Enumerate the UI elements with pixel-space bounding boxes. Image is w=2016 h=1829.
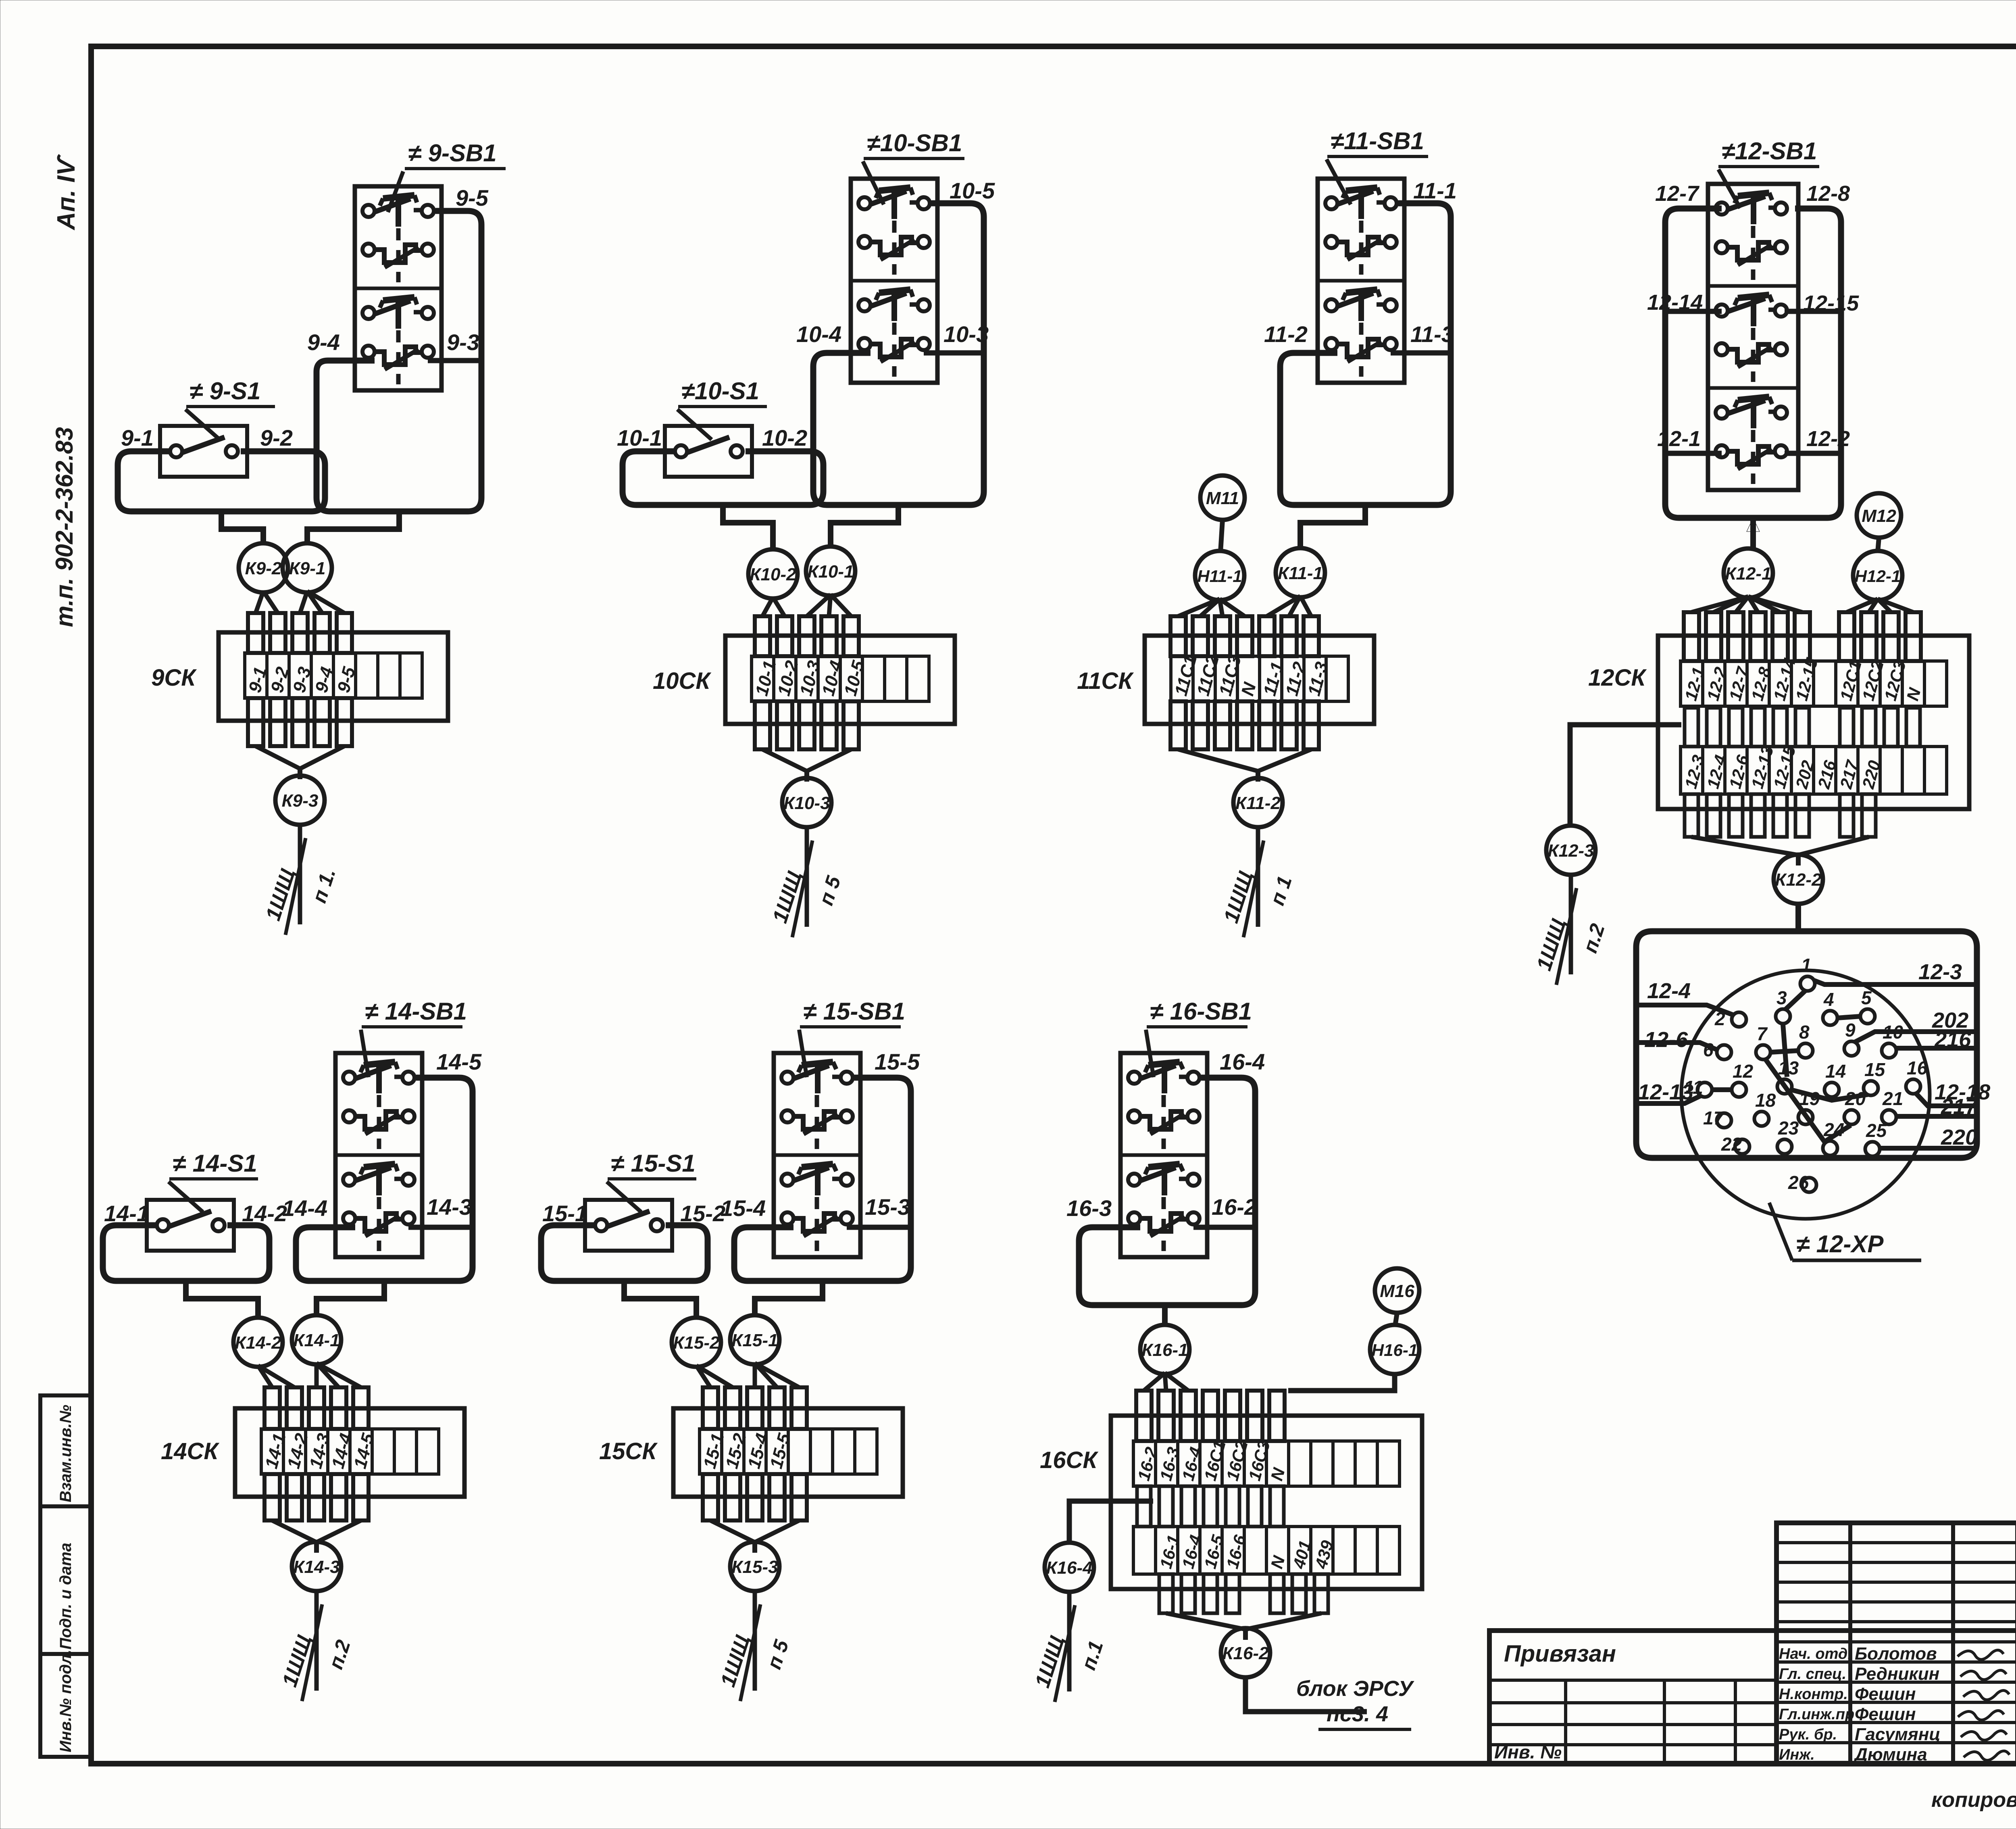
terminal label 14-2 <box>242 1201 287 1226</box>
svg-text:11-3: 11-3 <box>1410 321 1454 347</box>
svg-text:К11-1: К11-1 <box>1278 563 1323 583</box>
terminal label 15-2 <box>680 1201 725 1226</box>
connector 12-ХР right net labels <box>1918 960 1990 1149</box>
switch assembly ≠16-SB1 label <box>1146 998 1252 1077</box>
switch assembly ≠11-SB1 <box>1318 179 1404 383</box>
switch assembly ≠9-SB1 label <box>388 140 506 212</box>
svg-text:≠ 9-S1: ≠ 9-S1 <box>190 377 260 405</box>
relay coil K11-1 <box>1276 548 1325 597</box>
wire exit left from 12СК to K12-3 <box>1570 725 1681 825</box>
connector 12-ХР designator <box>1769 1203 1921 1260</box>
relay coil K14-1 <box>292 1315 341 1364</box>
terminal block 14СК label <box>161 1438 219 1464</box>
switch assembly ≠12-SB1 label <box>1718 138 1819 208</box>
svg-text:14СК: 14СК <box>161 1438 219 1464</box>
wire merge under 10СК <box>762 749 851 782</box>
terminal label 12-8 <box>1806 181 1850 206</box>
svg-text:≠ 9-SB1: ≠ 9-SB1 <box>408 140 497 167</box>
svg-text:10СК: 10СК <box>653 668 711 694</box>
svg-text:т.п. 902-2-362.83: т.п. 902-2-362.83 <box>51 427 78 627</box>
svg-text:15: 15 <box>1864 1059 1886 1080</box>
svg-text:п 5: п 5 <box>814 873 845 908</box>
svg-text:≠10-SB1: ≠10-SB1 <box>867 129 962 156</box>
svg-text:К16-2: К16-2 <box>1222 1643 1269 1663</box>
svg-text:12-3: 12-3 <box>1918 960 1962 984</box>
wire merge under 9СК <box>256 746 344 779</box>
switch assembly ≠15-SB1 label <box>799 998 905 1077</box>
terminal block 11СК <box>1145 636 1374 724</box>
wire S1-bus to K10-2 <box>723 505 773 551</box>
svg-text:12-7: 12-7 <box>1655 181 1700 206</box>
wire K16-2 to ERSU block <box>1245 1676 1367 1712</box>
pilot lamp M16 <box>1375 1268 1419 1313</box>
title block privyazan table <box>1489 1631 1776 1764</box>
switch assembly ≠9-SB1 <box>355 186 442 390</box>
wire merge under 12СК <box>1691 837 1869 865</box>
wire bus of 14-S1 <box>103 1225 269 1281</box>
wires below 12СК <box>1685 794 1876 837</box>
wire S1-bus to K14-2 <box>186 1281 258 1319</box>
wires below 16СК <box>1159 1574 1328 1613</box>
svg-text:9-4: 9-4 <box>307 330 340 355</box>
svg-text:К14-3: К14-3 <box>293 1557 339 1577</box>
terminal label 11-3 <box>1410 321 1454 347</box>
wire bus of 10-S1 <box>623 451 823 505</box>
wire bus of 14-SB1 <box>296 1078 473 1281</box>
terminal label 11-2 <box>1264 321 1308 347</box>
terminal label 10-5 <box>950 178 995 203</box>
wire bus of 15-S1 <box>541 1225 708 1281</box>
svg-text:16: 16 <box>1907 1057 1928 1078</box>
switch ≠9-S1 label <box>185 377 275 440</box>
svg-text:9: 9 <box>1845 1020 1856 1041</box>
relay coil K10-1 <box>806 546 855 596</box>
svg-text:12: 12 <box>1733 1061 1754 1082</box>
svg-text:≠ 14-S1: ≠ 14-S1 <box>173 1150 257 1177</box>
svg-text:11-2: 11-2 <box>1264 321 1308 347</box>
svg-text:14: 14 <box>1825 1061 1846 1082</box>
terminal label 14-1 <box>104 1201 149 1226</box>
svg-text:п.1: п.1 <box>1077 1638 1108 1673</box>
svg-text:≠11-SB1: ≠11-SB1 <box>1331 127 1424 154</box>
wire S1-bus to K9-2 <box>221 511 263 544</box>
switch ≠10-S1 <box>665 426 752 477</box>
switch assembly ≠12-SB1 <box>1708 184 1798 490</box>
svg-text:Взам.инв.№: Взам.инв.№ <box>57 1405 75 1502</box>
terminal label 16-2 <box>1212 1194 1257 1220</box>
switch assembly ≠10-SB1 label <box>863 129 964 204</box>
svg-text:К12-3: К12-3 <box>1547 841 1594 861</box>
terminal label 15-3 <box>865 1194 910 1220</box>
svg-text:9СК: 9СК <box>151 665 197 691</box>
svg-text:N: N <box>1903 685 1924 703</box>
wire bus of 9-SB1 <box>317 211 481 511</box>
svg-text:Подп. и дата: Подп. и дата <box>57 1543 75 1650</box>
wires into terminal block 16СК <box>1136 1373 1285 1441</box>
svg-text:18: 18 <box>1755 1090 1776 1111</box>
stamp box Inv.N podl <box>40 1650 91 1757</box>
wire SB1-bus to K9-1 <box>307 511 399 544</box>
wire SB1-bus to K14-1 <box>317 1281 384 1316</box>
margin note Ap.IV <box>52 154 80 231</box>
svg-text:Гл. спец.: Гл. спец. <box>1779 1666 1846 1683</box>
stamp box Vzam.inv <box>40 1395 91 1506</box>
relay coil K12-2 <box>1774 855 1823 904</box>
relay coil K9-1 <box>283 543 332 592</box>
pilot lamp M12 <box>1857 493 1901 538</box>
svg-text:15-5: 15-5 <box>875 1049 920 1074</box>
relay coil K15-3 <box>730 1542 779 1591</box>
relay coil K14-2 <box>233 1318 283 1367</box>
terminal block 12СК label <box>1588 665 1647 691</box>
svg-text:10-2: 10-2 <box>762 425 807 450</box>
relay coil K15-2 <box>672 1318 721 1367</box>
switch assembly ≠16-SB1 <box>1120 1053 1207 1257</box>
wires between rows 12СК <box>1685 708 1920 747</box>
svg-text:Н.контр.: Н.контр. <box>1779 1686 1848 1703</box>
svg-text:Дюмина: Дюмина <box>1853 1745 1927 1764</box>
wire SB1-bus to K12-1 <box>1747 518 1760 548</box>
svg-text:К14-1: К14-1 <box>293 1331 339 1350</box>
svg-text:К12-2: К12-2 <box>1775 870 1822 890</box>
net 1ШЩ п.2 from K12-3 <box>1532 874 1609 985</box>
wire SB1-bus to K15-1 <box>755 1281 823 1316</box>
terminal block 10СК <box>725 636 955 724</box>
wire bus of 12-SB1 <box>1665 209 1841 518</box>
relay coil K15-1 <box>730 1315 779 1364</box>
svg-text:21: 21 <box>1882 1088 1903 1109</box>
wires into terminal block 12СК <box>1684 596 1921 661</box>
svg-text:К9-3: К9-3 <box>282 791 319 811</box>
svg-text:Рук. бр.: Рук. бр. <box>1779 1726 1837 1743</box>
svg-text:4: 4 <box>1823 989 1834 1010</box>
terminal label 9-5 <box>456 185 489 211</box>
svg-text:9-5: 9-5 <box>456 185 489 211</box>
terminal label 9-2 <box>260 425 293 450</box>
svg-text:15-4: 15-4 <box>721 1195 766 1221</box>
svg-text:К9-2: К9-2 <box>245 559 282 578</box>
svg-text:К15-3: К15-3 <box>731 1557 778 1577</box>
wire bus of 15-SB1 <box>734 1078 911 1281</box>
svg-text:Гл.инж.пр: Гл.инж.пр <box>1779 1706 1854 1723</box>
net 1ШЩ п.5 from K10-3 <box>768 826 845 937</box>
note blok ERSU <box>1296 1677 1414 1729</box>
svg-text:8: 8 <box>1799 1022 1810 1043</box>
terminal label 14-5 <box>436 1049 482 1074</box>
terminal block 10СК label <box>653 668 711 694</box>
terminal label 14-4 <box>282 1195 327 1221</box>
svg-text:≠12-SB1: ≠12-SB1 <box>1722 138 1817 165</box>
svg-text:11СК: 11СК <box>1077 668 1134 694</box>
relay coil K14-3 <box>292 1542 341 1591</box>
svg-text:М12: М12 <box>1862 506 1896 526</box>
terminal block 9СК <box>219 632 448 721</box>
svg-text:7: 7 <box>1757 1023 1768 1044</box>
svg-text:К9-1: К9-1 <box>289 559 326 578</box>
switch ≠14-S1 <box>147 1200 234 1251</box>
terminal block 15СК label <box>599 1438 658 1464</box>
svg-text:≠ 16-SB1: ≠ 16-SB1 <box>1150 998 1252 1025</box>
svg-text:К11-2: К11-2 <box>1235 793 1281 813</box>
stamp box Podp.i data <box>40 1506 91 1654</box>
net 1ШЩ п.5 from K15-3 <box>716 1590 793 1701</box>
switch ≠9-S1 <box>160 426 247 477</box>
terminal block 9СК label <box>151 665 197 691</box>
svg-text:К10-2: К10-2 <box>750 565 796 584</box>
wire bus of 16-SB1 <box>1079 1078 1255 1305</box>
terminal block 14СК <box>235 1408 464 1497</box>
svg-text:п.2: п.2 <box>1579 921 1609 955</box>
relay coil K11-2 <box>1233 778 1283 827</box>
svg-text:Н16-1: Н16-1 <box>1372 1341 1418 1360</box>
switch assembly ≠14-SB1 label <box>361 998 467 1077</box>
connector 12-ХР outline <box>1636 931 1977 1219</box>
svg-text:Инв. №: Инв. № <box>1494 1741 1562 1762</box>
terminal label 14-3 <box>427 1194 472 1220</box>
svg-text:11-1: 11-1 <box>1413 178 1457 203</box>
svg-text:15СК: 15СК <box>599 1438 658 1464</box>
terminal label 12-2 <box>1806 427 1850 451</box>
wire M16 to H16-1 <box>1395 1313 1397 1326</box>
svg-text:N: N <box>1267 1553 1289 1570</box>
svg-text:копировал: №3 _: копировал: №3 _ <box>1931 1788 2016 1812</box>
terminal label 15-1 <box>542 1201 587 1226</box>
wire M12 to H12-1 <box>1878 538 1879 552</box>
svg-text:22: 22 <box>1721 1134 1742 1155</box>
svg-text:12-13: 12-13 <box>1638 1080 1693 1104</box>
svg-text:220: 220 <box>1941 1125 1977 1149</box>
switch assembly ≠14-SB1 <box>335 1053 422 1257</box>
svg-text:К10-1: К10-1 <box>807 562 854 582</box>
svg-text:Инж.: Инж. <box>1779 1746 1815 1763</box>
svg-text:16-4: 16-4 <box>1220 1049 1265 1074</box>
wire bus of 11-SB1 <box>1280 203 1451 505</box>
svg-text:п.2: п.2 <box>324 1637 355 1672</box>
wire merge under 11СК <box>1178 749 1311 782</box>
terminal label 15-5 <box>875 1049 920 1074</box>
terminal label 10-1 <box>617 425 662 450</box>
wires between rows 16СК <box>1137 1486 1284 1527</box>
svg-text:14-5: 14-5 <box>436 1049 482 1074</box>
wire merge under 15СК <box>710 1520 799 1553</box>
terminal block 16СК <box>1111 1416 1422 1589</box>
wire K12-2 to connector <box>1795 903 1801 931</box>
svg-text:≠ 15-S1: ≠ 15-S1 <box>611 1150 696 1177</box>
relay coil H11-1 <box>1195 551 1244 600</box>
svg-text:К15-2: К15-2 <box>673 1333 720 1353</box>
svg-text:К10-3: К10-3 <box>783 793 830 813</box>
switch assembly ≠11-SB1 label <box>1327 127 1428 204</box>
switch ≠10-S1 label <box>677 377 767 440</box>
switch ≠14-S1 label <box>169 1150 258 1212</box>
svg-text:≠ 12-ХР: ≠ 12-ХР <box>1796 1230 1884 1258</box>
wires into terminal block 11СК <box>1170 596 1319 749</box>
svg-text:N: N <box>1267 1465 1289 1483</box>
relay coil K10-2 <box>748 549 798 599</box>
wire bus of 10-SB1 <box>813 203 984 505</box>
terminal block 12СК <box>1658 636 1969 809</box>
wire SB1-bus to K11-1 <box>1300 505 1365 549</box>
svg-text:Привязан: Привязан <box>1504 1641 1616 1667</box>
terminal label 12-15 <box>1803 291 1859 315</box>
terminal label 10-4 <box>796 321 841 347</box>
connector 12-ХР internal wires <box>1636 980 1977 1148</box>
svg-text:14-4: 14-4 <box>282 1195 327 1221</box>
wires into terminal block 15СК <box>696 1363 807 1520</box>
net 1ШЩ п.2 from K14-3 <box>278 1590 355 1701</box>
terminal block 15СК <box>673 1408 903 1497</box>
svg-text:К16-4: К16-4 <box>1046 1558 1092 1578</box>
wire merge under 16СК <box>1166 1613 1321 1640</box>
note kopiroval <box>1931 1788 2016 1812</box>
wire merge under 14СК <box>272 1520 361 1553</box>
svg-text:9-3: 9-3 <box>447 330 479 355</box>
terminal label 16-3 <box>1066 1195 1112 1221</box>
net 1ШЩ п.1 from K11-2 <box>1219 826 1296 937</box>
relay coil K12-3 <box>1546 826 1595 875</box>
svg-text:217: 217 <box>1941 1095 1979 1119</box>
terminal label 12-1 <box>1657 427 1701 451</box>
wire SB1-bus to K16-1 <box>1162 1305 1168 1326</box>
terminal label 9-4 <box>307 330 340 355</box>
svg-text:12-4: 12-4 <box>1647 979 1691 1003</box>
svg-text:К12-1: К12-1 <box>1725 564 1771 584</box>
title block drawing name <box>1489 1631 2016 1766</box>
terminal label 11-1 <box>1413 178 1457 203</box>
svg-text:М16: М16 <box>1380 1281 1414 1301</box>
connector 12-ХР left net labels <box>1638 979 1693 1104</box>
svg-text:К16-1: К16-1 <box>1141 1340 1188 1360</box>
svg-text:12-6: 12-6 <box>1644 1028 1688 1052</box>
margin note doc number <box>51 427 78 627</box>
terminal label 16-4 <box>1220 1049 1265 1074</box>
terminal label 9-3 <box>447 330 479 355</box>
svg-text:26: 26 <box>1788 1172 1809 1193</box>
relay coil K16-4 <box>1045 1543 1094 1592</box>
svg-text:≠ 14-SB1: ≠ 14-SB1 <box>365 998 467 1025</box>
svg-text:10-4: 10-4 <box>796 321 841 347</box>
svg-text:1: 1 <box>1801 955 1812 976</box>
switch assembly ≠10-SB1 <box>851 179 937 383</box>
svg-text:Ап. IѴ: Ап. IѴ <box>52 154 80 231</box>
svg-text:Н12-1: Н12-1 <box>1855 567 1901 586</box>
svg-text:п 5: п 5 <box>762 1637 793 1672</box>
terminal label 15-4 <box>721 1195 766 1221</box>
wire H16-1 into 16СК <box>1288 1373 1395 1391</box>
terminal label 12-7 <box>1655 181 1700 206</box>
svg-text:К15-1: К15-1 <box>731 1331 778 1350</box>
wire bus of 9-S1 <box>118 451 325 511</box>
svg-text:12-8: 12-8 <box>1806 181 1850 206</box>
svg-text:10-1: 10-1 <box>617 425 662 450</box>
terminal block 11СК label <box>1077 668 1134 694</box>
relay coil K9-3 <box>275 776 325 825</box>
switch ≠15-S1 label <box>607 1150 696 1212</box>
svg-text:10-5: 10-5 <box>950 178 995 203</box>
svg-text:К14-2: К14-2 <box>235 1333 281 1353</box>
relay coil H12-1 <box>1853 551 1902 600</box>
wires into terminal block 10СК <box>755 594 859 749</box>
svg-text:12СК: 12СК <box>1588 665 1647 691</box>
svg-text:п 1.: п 1. <box>308 865 340 905</box>
relay coil K9-2 <box>239 543 288 592</box>
svg-text:3: 3 <box>1776 987 1787 1008</box>
wires into terminal block 14СК <box>258 1363 369 1520</box>
relay coil K16-2 <box>1221 1628 1270 1677</box>
wire S1-bus to K15-2 <box>624 1281 696 1319</box>
pilot lamp M11 <box>1200 475 1245 520</box>
connector 12-ХР pins <box>1684 955 1928 1193</box>
svg-text:23: 23 <box>1778 1118 1799 1139</box>
svg-text:блок ЭРСУ: блок ЭРСУ <box>1296 1677 1414 1701</box>
svg-text:17: 17 <box>1703 1107 1725 1128</box>
net 1ШЩ п.1 from K9-3 <box>261 824 340 935</box>
svg-text:14-3: 14-3 <box>427 1194 472 1220</box>
relay coil H16-1 <box>1370 1325 1419 1374</box>
svg-text:5: 5 <box>1861 987 1872 1008</box>
terminal block 16СК label <box>1040 1447 1098 1473</box>
title block signature table <box>1776 1523 2016 1764</box>
switch assembly ≠15-SB1 <box>774 1053 860 1257</box>
svg-text:Н11-1: Н11-1 <box>1197 567 1242 586</box>
terminal label 10-2 <box>762 425 807 450</box>
wires into terminal block 9СК <box>248 591 352 746</box>
relay coil K16-1 <box>1140 1325 1189 1374</box>
svg-text:Инв.№ подл.: Инв.№ подл. <box>57 1650 75 1752</box>
net 1ШЩ п.1 from K16-4 <box>1031 1591 1108 1702</box>
svg-text:≠ 15-SB1: ≠ 15-SB1 <box>803 998 905 1025</box>
terminal label 9-1 <box>121 425 154 450</box>
terminal label 10-3 <box>943 321 989 347</box>
terminal label 12-14 <box>1647 290 1703 315</box>
svg-text:9-2: 9-2 <box>260 425 293 450</box>
wire M11 to H11-1 <box>1220 520 1223 552</box>
relay coil K10-3 <box>782 778 831 827</box>
wire exit left from 16СК to K16-4 <box>1069 1501 1153 1544</box>
svg-text:16-3: 16-3 <box>1066 1195 1112 1221</box>
svg-text:пс3. 4: пс3. 4 <box>1327 1702 1388 1726</box>
wire SB1-bus to K10-1 <box>831 505 898 548</box>
switch ≠15-S1 <box>585 1200 672 1251</box>
svg-text:≠10-S1: ≠10-S1 <box>681 377 759 405</box>
svg-text:16-2: 16-2 <box>1212 1194 1257 1220</box>
relay coil K12-1 <box>1724 548 1773 598</box>
svg-text:п 1: п 1 <box>1266 873 1296 908</box>
svg-text:М11: М11 <box>1206 488 1239 508</box>
svg-text:9-1: 9-1 <box>121 425 154 450</box>
svg-text:16СК: 16СК <box>1040 1447 1098 1473</box>
svg-text:N: N <box>1237 680 1260 698</box>
svg-text:25: 25 <box>1866 1120 1887 1141</box>
svg-text:15-3: 15-3 <box>865 1194 910 1220</box>
svg-text:216: 216 <box>1934 1028 1971 1052</box>
svg-text:Нач. отд.: Нач. отд. <box>1779 1645 1852 1662</box>
